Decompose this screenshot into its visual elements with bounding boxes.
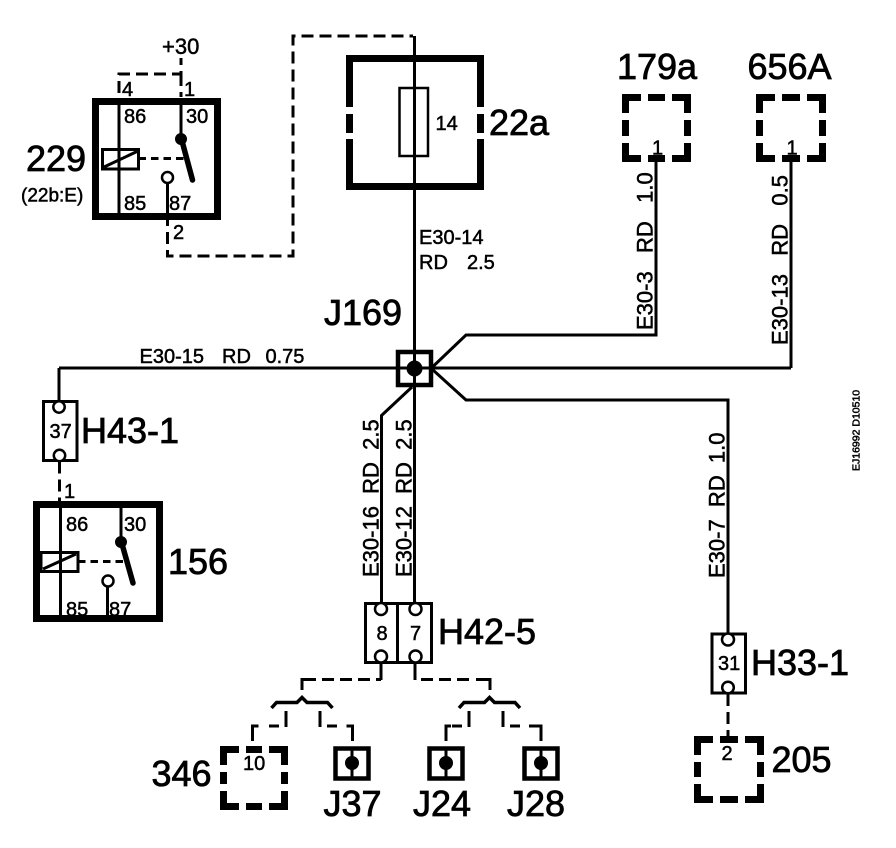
svg-text:1: 1 <box>787 138 798 160</box>
svg-text:H33-1: H33-1 <box>751 642 849 683</box>
svg-text:E30-7 RD 1.0: E30-7 RD 1.0 <box>705 432 730 578</box>
svg-text:205: 205 <box>772 739 832 780</box>
svg-text:E30-3 RD 1.0: E30-3 RD 1.0 <box>633 172 658 330</box>
svg-text:EJ16992 D10510: EJ16992 D10510 <box>851 390 863 471</box>
svg-text:(22b:E): (22b:E) <box>21 186 83 207</box>
svg-text:1: 1 <box>64 481 75 503</box>
svg-text:4: 4 <box>122 79 133 101</box>
svg-text:14: 14 <box>436 113 458 135</box>
svg-text:2: 2 <box>722 743 733 765</box>
svg-text:+30: +30 <box>162 34 199 59</box>
svg-text:J169: J169 <box>324 292 402 333</box>
svg-text:346: 346 <box>152 753 212 794</box>
svg-text:10: 10 <box>243 753 265 775</box>
svg-text:656A: 656A <box>747 46 831 87</box>
svg-text:86: 86 <box>66 514 88 536</box>
svg-text:2: 2 <box>173 222 184 244</box>
svg-text:86: 86 <box>124 106 146 128</box>
svg-text:1: 1 <box>184 79 195 101</box>
svg-text:H43-1: H43-1 <box>81 410 179 451</box>
svg-text:E30-12 RD 2.5: E30-12 RD 2.5 <box>392 419 417 577</box>
svg-text:30: 30 <box>124 514 146 536</box>
svg-text:30: 30 <box>186 106 208 128</box>
svg-text:7: 7 <box>410 623 421 645</box>
svg-text:RD: RD <box>222 346 251 368</box>
svg-text:85: 85 <box>66 599 88 621</box>
svg-text:37: 37 <box>50 421 72 443</box>
svg-text:1: 1 <box>652 138 663 160</box>
svg-text:156: 156 <box>168 541 228 582</box>
svg-text:E30-16 RD 2.5: E30-16 RD 2.5 <box>359 419 384 577</box>
svg-text:179a: 179a <box>617 46 698 87</box>
svg-text:J28: J28 <box>507 783 565 824</box>
svg-text:RD: RD <box>419 252 448 274</box>
svg-text:J37: J37 <box>323 783 381 824</box>
svg-text:H42-5: H42-5 <box>438 611 536 652</box>
svg-text:8: 8 <box>376 623 387 645</box>
svg-text:E30-15: E30-15 <box>140 346 205 368</box>
svg-text:87: 87 <box>169 193 191 215</box>
svg-text:31: 31 <box>718 653 740 675</box>
svg-text:E30-14: E30-14 <box>419 227 484 249</box>
svg-text:87: 87 <box>109 599 131 621</box>
svg-text:229: 229 <box>26 138 86 179</box>
svg-text:85: 85 <box>124 193 146 215</box>
svg-text:22a: 22a <box>489 102 550 143</box>
svg-text:0.75: 0.75 <box>266 346 305 368</box>
svg-text:E30-13 RD 0.5: E30-13 RD 0.5 <box>768 175 793 345</box>
svg-text:2.5: 2.5 <box>467 252 495 274</box>
svg-text:J24: J24 <box>413 783 471 824</box>
